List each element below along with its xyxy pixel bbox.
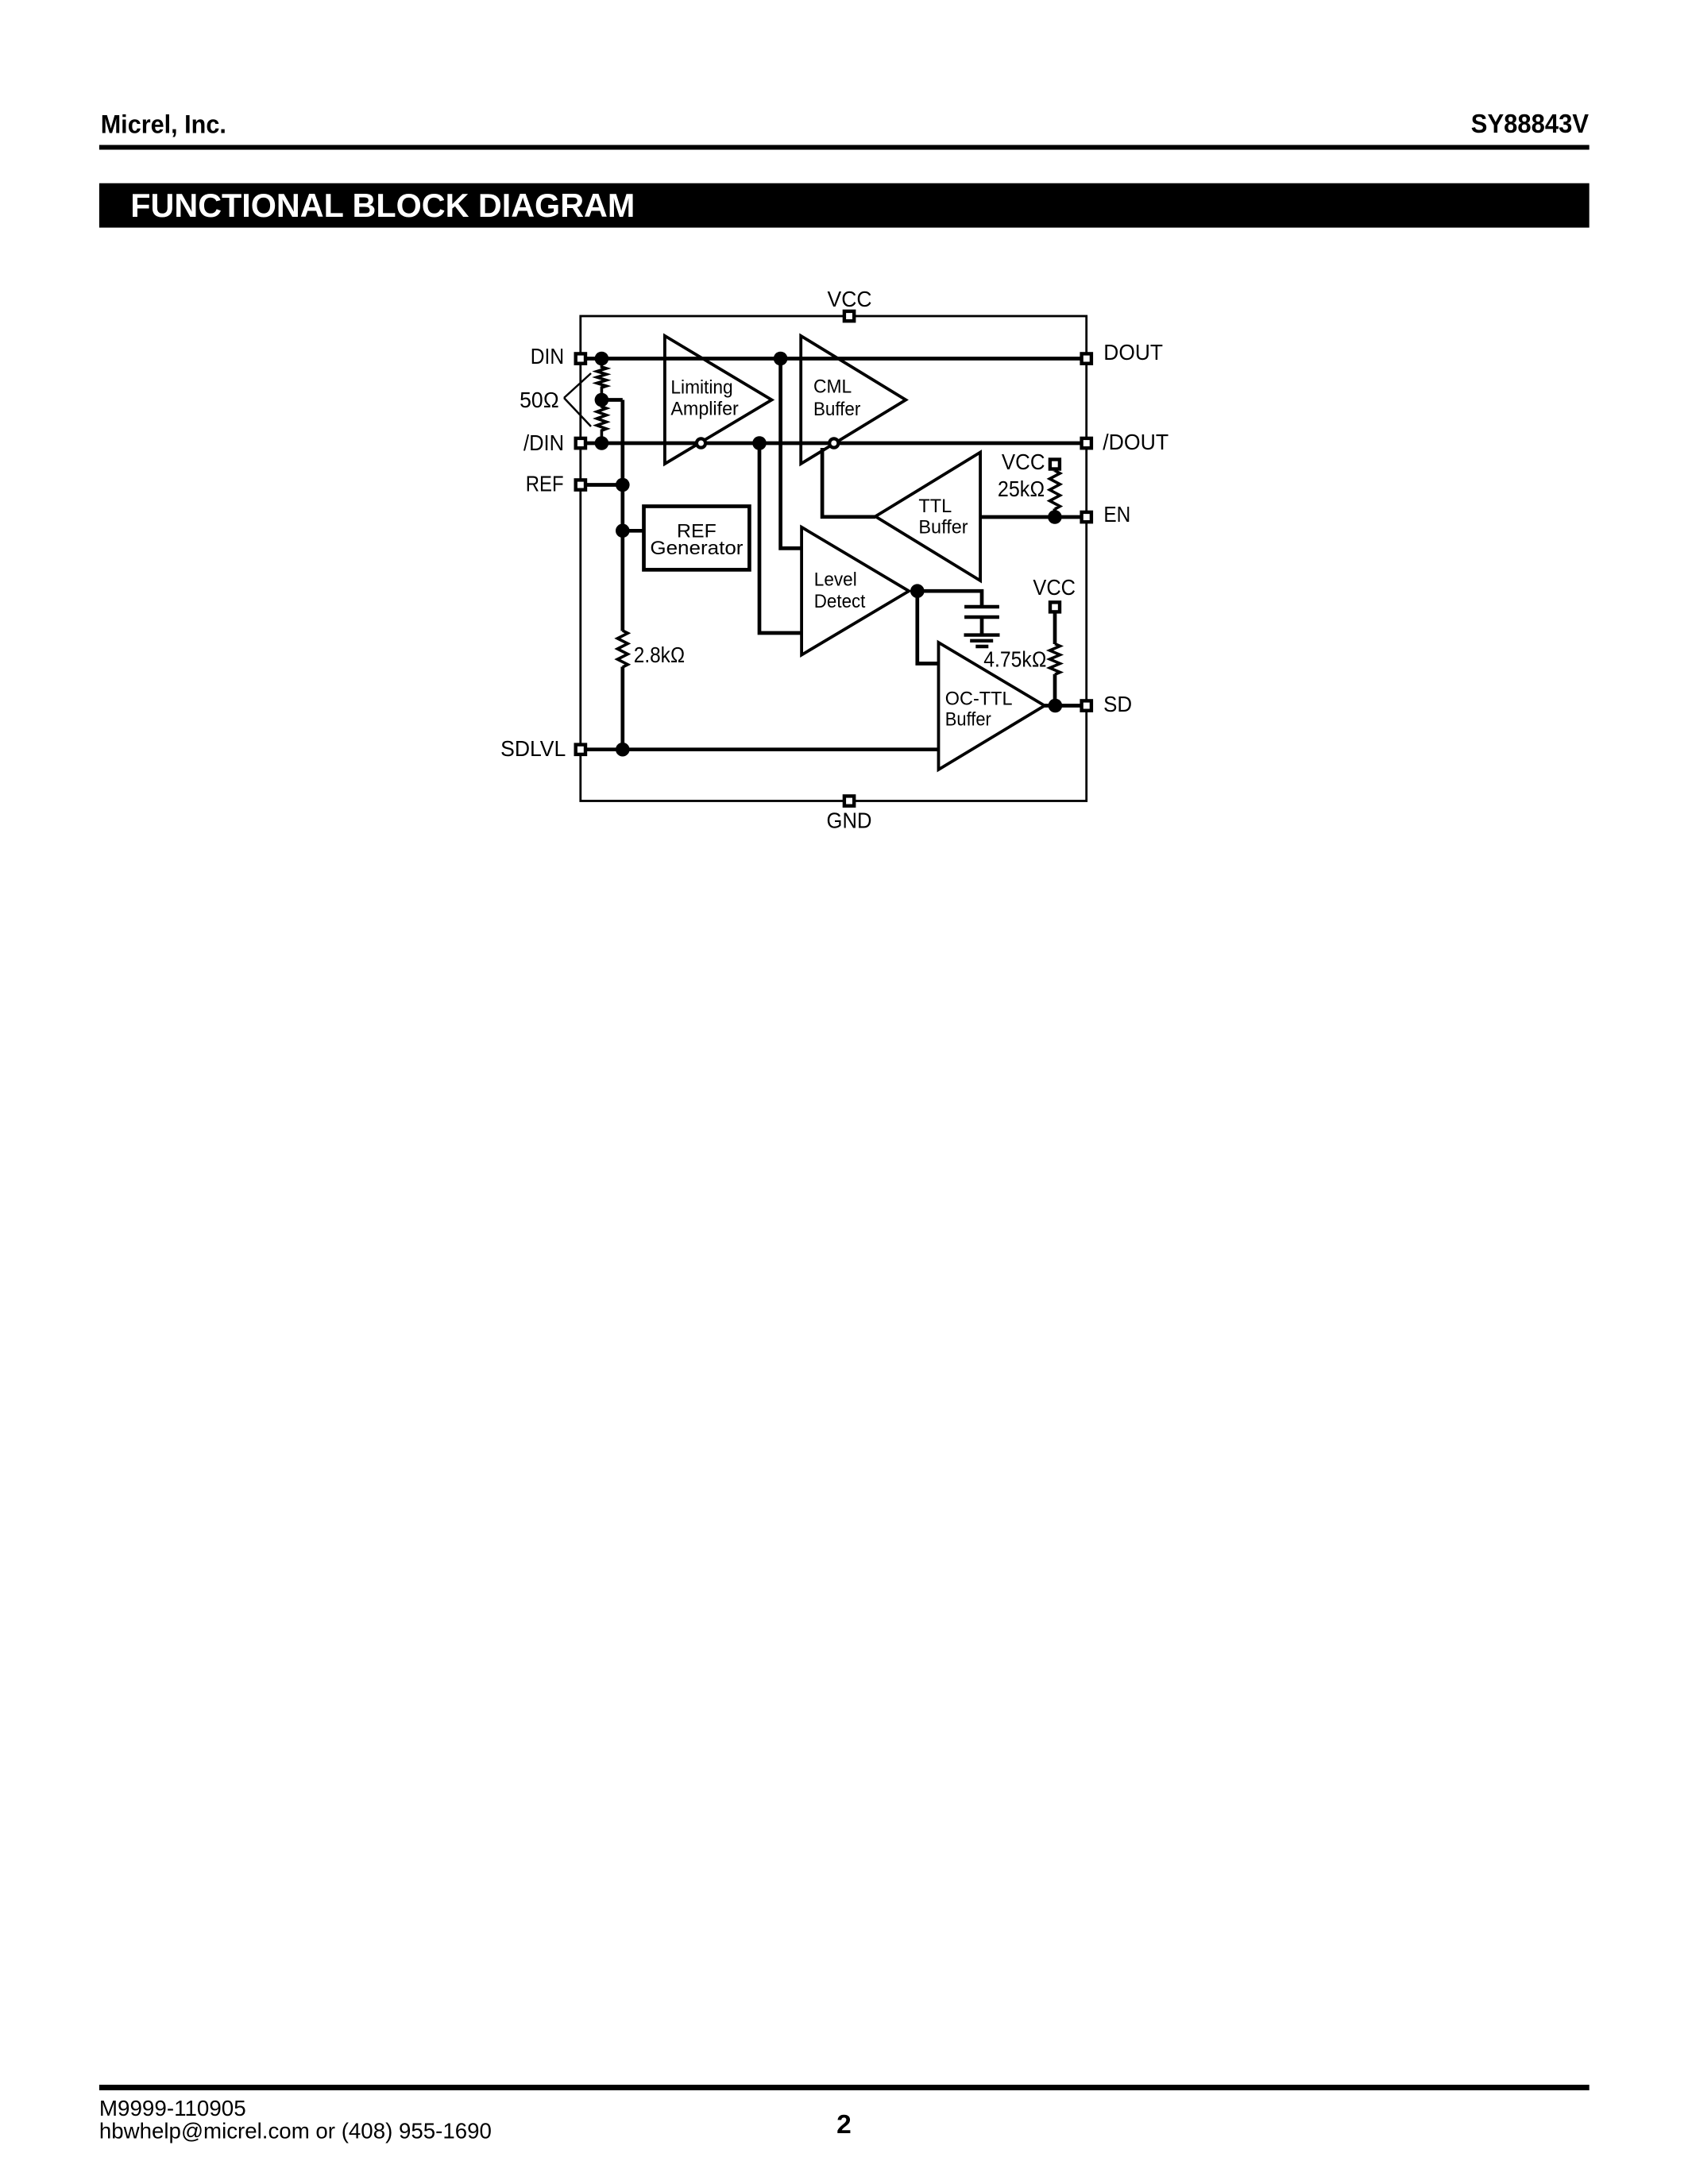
svg-text:Buffer: Buffer [813, 399, 860, 420]
pin square EN [1082, 512, 1091, 522]
junction dot level detect output [910, 584, 925, 598]
wire OC-TTL to SD [1045, 704, 1087, 708]
svg-text:OC-TTL: OC-TTL [945, 688, 1013, 709]
op-amp TTL buffer [875, 453, 980, 581]
header rule [99, 145, 1590, 150]
svg-text:Generator: Generator [650, 538, 743, 559]
footer rule [99, 2085, 1590, 2090]
junction dot EN [1048, 510, 1062, 524]
wire 25k resistor leads [1053, 469, 1057, 473]
op-amp CML buffer [801, 336, 906, 464]
junction dot REF [616, 478, 630, 492]
svg-text:Limiting: Limiting [670, 377, 732, 399]
junction dot /DIN tap rail [752, 436, 767, 450]
svg-text:TTL: TTL [918, 496, 952, 517]
wire 50-ohm mid tap [601, 398, 622, 402]
wire 25k bottom lead [1053, 509, 1057, 518]
wire REF rail upper [620, 400, 624, 631]
ground symbol [964, 635, 1000, 646]
svg-text:25kΩ: 25kΩ [998, 477, 1045, 501]
svg-text:50Ω: 50Ω [520, 388, 559, 412]
svg-text:DIN: DIN [531, 344, 564, 369]
svg-text:FUNCTIONAL BLOCK DIAGRAM: FUNCTIONAL BLOCK DIAGRAM [130, 187, 635, 224]
svg-text:VCC: VCC [828, 287, 872, 311]
capacitor C1 [964, 607, 999, 617]
pin square REF [576, 480, 585, 489]
svg-text:DOUT: DOUT [1103, 340, 1163, 365]
pin square VCC top [844, 311, 854, 321]
svg-text:2: 2 [836, 2110, 852, 2140]
outer block boundary box [581, 316, 1087, 801]
pin square GND [844, 796, 854, 805]
wire /DIN to /DOUT [581, 442, 1087, 446]
wire capacitor to ground [980, 617, 984, 635]
junction dot DIN [595, 352, 609, 366]
pin square DIN [576, 353, 585, 363]
svg-text:Micrel, Inc.: Micrel, Inc. [101, 110, 226, 138]
pin square /DOUT [1082, 438, 1091, 448]
wire VCC to 4.75k resistor [1053, 607, 1057, 644]
svg-text:SDLVL: SDLVL [500, 736, 566, 761]
svg-text:Detect: Detect [814, 591, 866, 612]
wire TTL buffer to EN [980, 515, 1087, 519]
wire DIN tap rail to level detect [781, 359, 802, 549]
svg-text:2.8kΩ: 2.8kΩ [634, 642, 686, 667]
op-amp limiting amplifier [665, 336, 772, 464]
pin square SD [1082, 700, 1091, 710]
title bar [99, 183, 1590, 228]
svg-text:Buffer: Buffer [918, 517, 968, 538]
svg-text:CML: CML [813, 376, 852, 398]
svg-text:/DOUT: /DOUT [1103, 430, 1168, 454]
resistor 2.8k [617, 631, 628, 667]
svg-text:VCC: VCC [1002, 450, 1045, 474]
resistor 50-ohm lower half [597, 400, 606, 444]
junction dot /DIN [595, 436, 609, 450]
wire level detect out down to OC-TTL [917, 591, 939, 663]
svg-text:/DIN: /DIN [523, 430, 564, 455]
wire SDLVL line [581, 747, 939, 751]
inverting bubble on limiting amplifier [697, 438, 705, 447]
pin square /DIN [576, 438, 585, 448]
svg-text:Amplifer: Amplifer [670, 398, 738, 419]
resistor 50-ohm upper half [597, 359, 606, 400]
svg-text:Buffer: Buffer [945, 708, 991, 730]
pin square SDLVL [576, 745, 585, 754]
svg-text:SD: SD [1103, 692, 1132, 716]
junction dot REF generator input [616, 524, 630, 538]
svg-text:SY88843V: SY88843V [1471, 109, 1589, 138]
REF generator box [644, 507, 750, 570]
pin square VCC 4.75k [1050, 602, 1060, 612]
wire 4.75k to SD [1053, 674, 1057, 706]
resistor 25k [1049, 471, 1060, 510]
svg-text:VCC: VCC [1033, 575, 1076, 600]
svg-text:GND: GND [827, 808, 872, 832]
wire /DIN tap rail to level detect [759, 443, 802, 633]
pin square DOUT [1082, 353, 1091, 363]
junction dot SD [1049, 699, 1063, 713]
wire level detect out to capacitor [917, 591, 982, 607]
wire REF stub [581, 483, 623, 487]
op-amp level detect [802, 527, 909, 655]
wire CML tap to TTL buffer [822, 448, 875, 517]
svg-text:REF: REF [526, 472, 564, 496]
junction dot 50-ohm mid tap [595, 393, 609, 407]
svg-text:4.75kΩ: 4.75kΩ [983, 647, 1046, 672]
svg-text:hbwhelp@micrel.com or (408) 95: hbwhelp@micrel.com or (408) 955-1690 [99, 2118, 492, 2143]
svg-text:M9999-110905: M9999-110905 [99, 2096, 246, 2120]
resistor 4.75k [1050, 644, 1060, 675]
junction dot DIN tap rail [774, 352, 788, 366]
svg-text:EN: EN [1103, 502, 1130, 527]
inverting bubble on CML buffer [829, 438, 838, 447]
junction dot SDLVL [616, 743, 630, 757]
svg-text:Level: Level [814, 569, 857, 590]
pin square VCC 25k [1050, 460, 1060, 469]
op-amp OC-TTL buffer [939, 642, 1045, 770]
50-ohm label pointer bracket [564, 373, 591, 426]
wire REF rail lower [620, 667, 624, 750]
wire DIN to DOUT [581, 357, 1087, 361]
wire REF generator stub [623, 529, 644, 533]
